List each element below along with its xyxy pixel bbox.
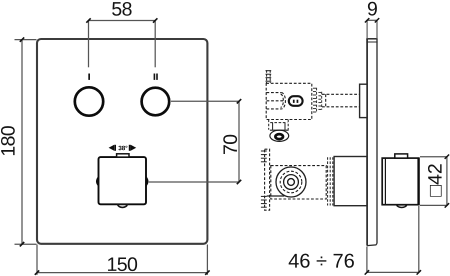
dimension 150 lines and ticks [35, 245, 210, 275]
escutcheon flange behind plate (upper) [360, 84, 367, 117]
dimension 70 leader lines, line and ticks [149, 99, 241, 184]
dimension 70 label (rotated) [223, 135, 237, 154]
square handle (side view) [382, 158, 418, 206]
dimension 9 line and ticks [365, 18, 379, 39]
dimension 46-76 lines and ticks [365, 206, 421, 275]
valve sleeve through wall (solid) [334, 157, 367, 206]
bottom bump of square knob [118, 205, 128, 208]
38 degrees left arrow [109, 145, 116, 151]
valve body end cap (dashed, domed right end) [266, 93, 285, 109]
valve body center port (stadium with slot) [289, 96, 303, 106]
dimension 180 label (rotated) [1, 126, 15, 155]
dimension 42 lines and ticks [420, 155, 449, 208]
handle bottom bump [397, 205, 407, 208]
38 degrees indicator label [118, 146, 127, 151]
marker I above left knob [88, 74, 90, 80]
dimension 46-76 label [289, 254, 354, 268]
handle top tab [395, 154, 408, 158]
dimension 150 label [108, 257, 137, 271]
dimension 58 lines and ticks [86, 18, 157, 67]
knob I (left round handle) [75, 87, 103, 115]
volume control cartridge circles [276, 167, 306, 197]
bottom port of valve body [269, 120, 289, 142]
front trim plate [37, 39, 207, 244]
thermostatic valve body (dashed, hidden) [266, 83, 312, 119]
volume control valve body (dashed, hidden) [271, 166, 326, 199]
knob II (right round handle) [142, 88, 170, 116]
temperature knob (square) [99, 157, 147, 204]
dimension 58 label [112, 2, 131, 16]
dimension 180 lines and ticks [15, 37, 37, 246]
top pipe stub (dashed with thread ticks) [266, 70, 272, 83]
cartridge shaft (dashed, hidden) [322, 94, 360, 107]
connector dashed verticals to sleeve [328, 157, 333, 205]
inlet flange bar (dashed) with thread hatches [261, 149, 270, 210]
dimension 42 label (rotated, with square symbol) [428, 164, 442, 196]
wall plate (side view) [366, 39, 377, 246]
short solid ledge under cartridge [267, 195, 285, 197]
threaded adapter steps (thread hatch strips) [313, 88, 322, 113]
left grip lug of square knob [96, 176, 99, 187]
38 degrees right arrow [129, 145, 136, 151]
safety override button tab on top of square knob [117, 154, 129, 157]
dimension 9 label [368, 2, 377, 16]
right grip lug of square knob [146, 176, 149, 187]
marker II above right knob [154, 74, 158, 80]
